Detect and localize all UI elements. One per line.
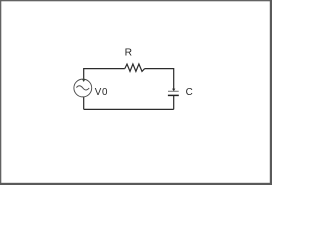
svg-text:V0: V0 [95, 87, 108, 98]
voltage source sine symbol [76, 86, 89, 90]
terminal arrowhead at source top [82, 79, 85, 82]
frame border right [270, 0, 272, 185]
svg-text:C: C [186, 87, 193, 98]
resistor R [125, 64, 145, 71]
frame border left [0, 0, 1, 185]
frame border bottom [0, 183, 272, 185]
capacitor C bottom plate [168, 94, 179, 96]
terminal arrowhead at capacitor top [172, 89, 175, 92]
capacitor C top plate [168, 90, 179, 92]
wire bottom rail [84, 108, 174, 110]
wire top-right segment [145, 69, 174, 91]
voltage source V0 circle [74, 79, 92, 97]
svg-text:R: R [125, 47, 132, 58]
wire top-left segment [84, 69, 125, 79]
frame border top [0, 0, 272, 1]
wire bottom-left segment [83, 97, 85, 110]
wire capacitor-bottom to bottom rail [173, 96, 175, 110]
